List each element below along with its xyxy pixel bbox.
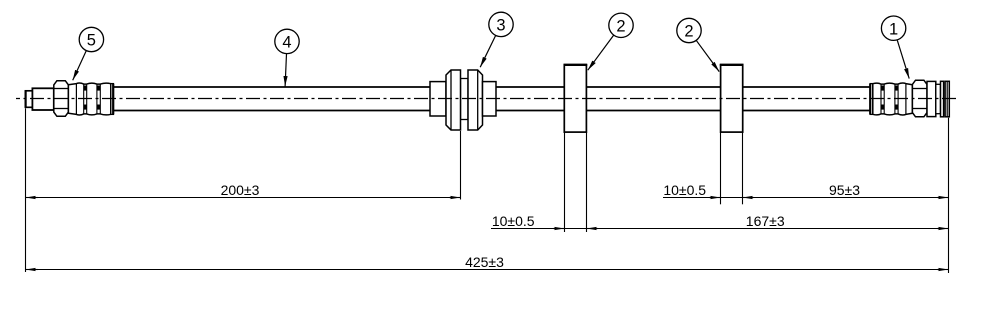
item5 ferrule end ring (111, 84, 114, 115)
svg-text:425±3: 425±3 (465, 254, 504, 270)
item5 fitting body cylinder (32, 88, 53, 110)
svg-text:167±3: 167±3 (746, 213, 785, 229)
item1 hex nut (912, 80, 927, 117)
item1 ferrule cone edge (905, 84, 907, 115)
extension line clamp1 right (586, 132, 588, 232)
item3 grommet left flange (446, 70, 461, 130)
extension line clamp2 left (720, 132, 722, 204)
item1 neck (936, 84, 941, 113)
item1 collar (927, 81, 936, 116)
svg-text:2: 2 (616, 18, 625, 36)
item2 clamp 1 (564, 65, 586, 132)
balloon 1 leader (897, 40, 909, 78)
svg-text:10±0.5: 10±0.5 (492, 213, 535, 229)
balloon 1 circle (881, 16, 905, 40)
balloon 3 leader (480, 35, 496, 67)
extension line clamp1 left (564, 132, 566, 232)
item1 end ring 1 (941, 81, 944, 117)
item2 clamp 2 (721, 65, 743, 132)
extension line right end (948, 118, 950, 273)
svg-text:200±3: 200±3 (221, 182, 260, 198)
item3 grommet right flange (468, 70, 483, 130)
svg-text:3: 3 (496, 17, 505, 35)
balloon 5 circle (79, 27, 103, 51)
dimension line 200±3 (26, 197, 461, 199)
item5 crimp ferrule (68, 83, 110, 115)
item1 ferrule groove 2 (894, 84, 896, 114)
balloon 3 circle (489, 12, 513, 36)
balloon 2b circle (677, 18, 701, 42)
svg-text:95±3: 95±3 (829, 182, 860, 198)
item3 grommet left collar (430, 82, 446, 116)
item1 end ring 2 (945, 81, 949, 117)
svg-text:2: 2 (684, 23, 693, 41)
balloon 4 circle (275, 29, 299, 53)
item3 grommet groove neck (461, 79, 469, 120)
dimension line 425±3 (26, 269, 949, 271)
extension line left end (25, 108, 27, 272)
extension line grommet center (460, 131, 462, 200)
item3 grommet right collar (483, 82, 497, 116)
item1 ferrule end ring (870, 84, 873, 115)
svg-text:5: 5 (87, 32, 96, 50)
extension line clamp2 right (742, 132, 744, 204)
item5 fitting tip cylinder (25, 91, 32, 108)
dimension line 10±0.5 clamp2 / 95±3 (663, 197, 949, 199)
hose centerline (16, 98, 958, 100)
item5 hex nut (54, 81, 69, 117)
balloon 2b leader (696, 40, 719, 71)
hose bottom line (112, 110, 871, 112)
item1 crimp ferrule (873, 83, 913, 115)
balloon 5 leader (73, 51, 87, 81)
item5 ferrule groove 2 (96, 84, 98, 114)
dimension line 10±0.5 clamp1 / 167±3 (491, 228, 949, 230)
balloon 2a circle (609, 13, 633, 37)
balloon 2a leader (588, 35, 614, 70)
svg-text:10±0.5: 10±0.5 (663, 182, 706, 198)
item5 ferrule cone edge (75, 84, 77, 115)
hose top line (112, 86, 871, 88)
item1 ferrule groove 1 (880, 84, 882, 114)
balloon 4 leader (285, 54, 286, 87)
svg-text:1: 1 (889, 20, 898, 38)
item5 ferrule groove 1 (83, 84, 85, 114)
svg-text:4: 4 (282, 34, 291, 52)
